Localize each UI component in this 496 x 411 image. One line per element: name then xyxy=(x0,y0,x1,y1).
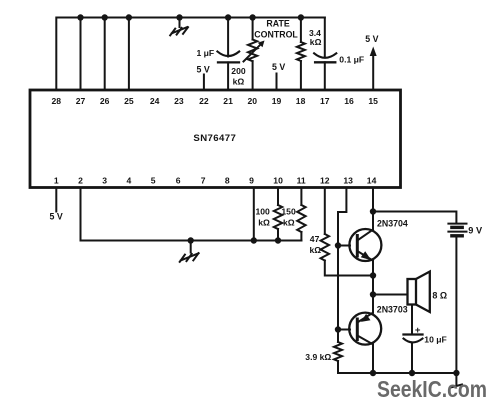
node V+ junction xyxy=(370,208,376,214)
svg-text:SeekIC.com: SeekIC.com xyxy=(377,376,487,402)
svg-text:25: 25 xyxy=(124,96,134,106)
ground rail bottom xyxy=(338,372,456,374)
svg-text:10: 10 xyxy=(273,175,283,185)
node speaker tap xyxy=(370,291,376,297)
wire pin 25 xyxy=(128,18,130,91)
svg-text:27: 27 xyxy=(76,96,86,106)
svg-text:4: 4 xyxy=(127,175,132,185)
svg-text:5 V: 5 V xyxy=(50,211,63,221)
5V supply stub pin 19 xyxy=(272,62,285,90)
svg-text:5 V: 5 V xyxy=(365,34,378,44)
svg-text:18: 18 xyxy=(296,96,306,106)
pin numbers top row xyxy=(52,96,379,106)
svg-text:3.9 kΩ: 3.9 kΩ xyxy=(305,352,331,362)
top bus wire pins 28-17 xyxy=(56,18,325,91)
wire pin 14 xyxy=(372,188,374,212)
svg-text:8: 8 xyxy=(225,175,230,185)
svg-text:kΩ: kΩ xyxy=(283,217,295,227)
svg-text:9: 9 xyxy=(249,175,254,185)
svg-text:10 μF: 10 μF xyxy=(424,335,446,345)
node rail C3 xyxy=(409,370,415,376)
svg-text:1: 1 xyxy=(54,175,59,185)
ground at battery return xyxy=(451,373,463,388)
svg-text:SN76477: SN76477 xyxy=(193,133,236,144)
svg-text:16: 16 xyxy=(344,96,354,106)
resistor R6 3.9k xyxy=(305,342,342,373)
potentiometer R1 200k RATE CONTROL on pin 20 xyxy=(231,14,298,90)
node pin9 junction xyxy=(251,237,257,243)
svg-text:14: 14 xyxy=(367,175,377,185)
battery B1 9V xyxy=(448,224,483,373)
svg-text:3: 3 xyxy=(102,175,107,185)
svg-text:kΩ: kΩ xyxy=(310,245,322,255)
svg-text:200: 200 xyxy=(231,66,246,76)
svg-text:CONTROL: CONTROL xyxy=(254,30,298,40)
node bus-25 xyxy=(126,14,132,20)
svg-text:26: 26 xyxy=(100,96,110,106)
resistor R5 47k on pin 12 xyxy=(310,188,374,276)
svg-text:22: 22 xyxy=(199,96,209,106)
svg-text:11: 11 xyxy=(297,175,306,185)
svg-text:24: 24 xyxy=(150,96,160,106)
svg-text:2: 2 xyxy=(78,175,83,185)
svg-text:13: 13 xyxy=(343,175,353,185)
svg-text:20: 20 xyxy=(248,96,258,106)
transistor Q2 2N3703 xyxy=(349,295,408,374)
svg-text:8 Ω: 8 Ω xyxy=(432,291,447,301)
svg-text:5 V: 5 V xyxy=(197,65,210,75)
IC U1 SN76477 body xyxy=(30,90,401,188)
capacitor C1 1uF on pin 21 xyxy=(197,14,240,90)
node rail battery xyxy=(453,370,459,376)
svg-text:23: 23 xyxy=(174,96,184,106)
node rail Q2 xyxy=(370,370,376,376)
5V supply stub pin 1 xyxy=(50,188,63,222)
svg-text:21: 21 xyxy=(223,96,233,106)
svg-text:5: 5 xyxy=(151,175,156,185)
svg-text:28: 28 xyxy=(52,96,62,106)
svg-text:kΩ: kΩ xyxy=(258,217,270,227)
capacitor C2 0.1uF on pin 17 xyxy=(314,18,364,91)
svg-text:7: 7 xyxy=(201,175,206,185)
transistor Q1 2N3704 xyxy=(349,212,408,295)
svg-text:kΩ: kΩ xyxy=(310,37,322,47)
svg-text:100: 100 xyxy=(256,206,271,216)
wire pin 2 down and right xyxy=(81,188,302,241)
svg-text:5 V: 5 V xyxy=(272,62,285,72)
svg-text:0.1 μF: 0.1 μF xyxy=(339,55,364,65)
resistor R4 150k on pin 11 xyxy=(281,188,305,241)
svg-text:15: 15 xyxy=(368,96,378,106)
svg-text:6: 6 xyxy=(176,175,181,185)
svg-text:150: 150 xyxy=(281,206,296,216)
svg-text:1 μF: 1 μF xyxy=(197,48,215,58)
wire speaker feed xyxy=(373,294,408,296)
svg-text:47: 47 xyxy=(310,234,320,244)
resistor R3 100k on pin 10 xyxy=(256,188,283,244)
wire pin 26 xyxy=(104,18,106,91)
wire Q2 base xyxy=(338,329,350,331)
svg-text:17: 17 xyxy=(320,96,330,106)
svg-text:9 V: 9 V xyxy=(468,226,483,236)
node bus-26 xyxy=(102,14,108,20)
svg-text:kΩ: kΩ xyxy=(233,77,245,87)
pin numbers bottom row xyxy=(54,175,377,185)
5V supply arrow pin 15 xyxy=(365,34,378,90)
node Q1 base junction xyxy=(335,242,341,248)
ground on top bus xyxy=(170,14,188,35)
wire pin 9 xyxy=(253,188,255,241)
svg-text:12: 12 xyxy=(320,175,330,185)
node bus-27 xyxy=(77,14,83,20)
node emitter/47k junction xyxy=(370,272,376,278)
speaker LS1 8 ohm xyxy=(408,272,448,313)
capacitor C3 10uF electrolytic xyxy=(404,305,447,374)
wire pin 13 jog to base line xyxy=(338,188,346,343)
svg-text:RATE: RATE xyxy=(266,18,289,28)
svg-text:2N3703: 2N3703 xyxy=(377,305,408,315)
wire Q1 base xyxy=(338,245,350,247)
svg-text:19: 19 xyxy=(272,96,282,106)
resistor R2 3.4k on pin 18 xyxy=(297,14,322,90)
svg-text:+: + xyxy=(415,325,421,336)
node Q2 base junction xyxy=(335,326,341,332)
ground on pin-2 net xyxy=(180,237,199,261)
wire V+ rail to battery xyxy=(373,212,456,223)
svg-text:2N3704: 2N3704 xyxy=(377,218,408,228)
5V supply stub pin 22 xyxy=(197,65,210,90)
wire pin 27 xyxy=(80,18,82,91)
